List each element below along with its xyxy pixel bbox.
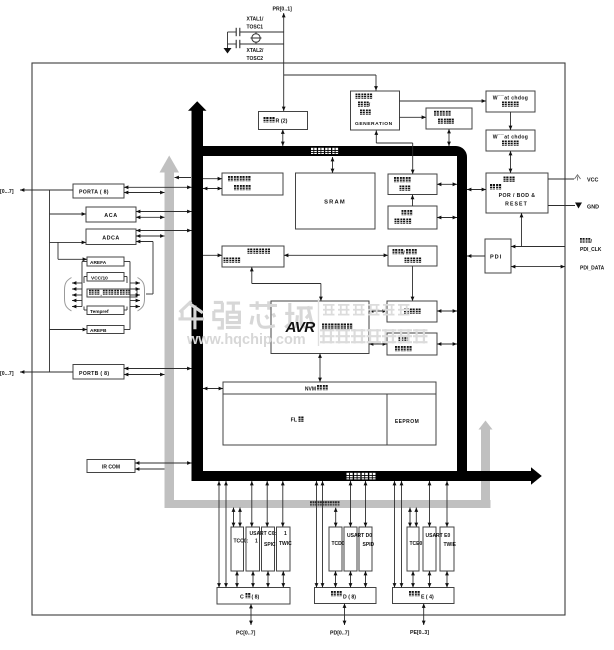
wire ACA to data bus (136, 211, 192, 213)
wire CPU to interrupt controller (369, 343, 387, 345)
wire feeder to AREFA (57, 242, 59, 259)
svg-text:PD[0..7]: PD[0..7] (330, 631, 350, 637)
power supervision POR/BOD & RESET U-PWR (486, 173, 548, 213)
watermark hqchip large (178, 301, 204, 329)
wire XTAL2 line (228, 43, 237, 45)
svg-text:GND: GND (587, 204, 599, 210)
ADC ADCA (86, 229, 136, 245)
wire port D to pads (344, 604, 346, 626)
data bus bottom bar (192, 471, 532, 481)
wire left feeder bus (49, 190, 51, 372)
watermark divider (318, 299, 320, 346)
svg-text:[0...7]: [0...7] (0, 189, 14, 195)
port C block (217, 588, 290, 605)
TWI E (440, 527, 454, 571)
SPI C (262, 527, 275, 571)
watchdog oscillator U-WDO (486, 91, 535, 112)
svg-text:TOSC1: TOSC1 (247, 25, 264, 31)
svg-text:FL: FL (291, 418, 298, 424)
watermark right line1 (323, 304, 335, 316)
svg-text:PORTA ( 8): PORTA ( 8) (79, 190, 109, 196)
gray event bus bottom bar (165, 500, 491, 508)
wire IRCOM to event bus (135, 468, 165, 470)
wire port E data lines (394, 481, 396, 588)
port R (2) (259, 112, 308, 130)
wire CPU to OCD (369, 310, 387, 312)
wires into right funnel (129, 283, 131, 307)
data bus bottom arrowhead (531, 467, 542, 484)
svg-text:PDI_CLK: PDI_CLK (580, 247, 602, 253)
wire oscillator control to bus (437, 183, 457, 185)
wire TCC event lines (233, 508, 235, 528)
svg-text:RESET: RESET (505, 202, 528, 208)
wire PORTA pad (20, 189, 73, 191)
wire PORTB pad (20, 371, 73, 373)
real time counter U-RTC (426, 108, 472, 129)
wire PR vertical to Port R (283, 13, 285, 111)
wire USARTE TWIE data lines (429, 481, 431, 527)
wire TCD event line (335, 508, 337, 528)
gray event bus right arrow up (479, 421, 493, 430)
wires into left funnel (81, 283, 83, 307)
OCD monitor (387, 301, 437, 322)
wire USARTC SPIC TWIC data lines (251, 481, 253, 527)
GND symbol (575, 203, 582, 209)
svg-text:AVR: AVR (285, 319, 316, 336)
wire port C data lines (218, 481, 220, 588)
wire PDI_DATA (511, 266, 565, 268)
wire PDI to bus (467, 255, 485, 257)
wire watchdog osc to watchdog timer (510, 112, 512, 130)
wire power bottom from PDI clk net (521, 213, 523, 247)
svg-text:TCE0: TCE0 (410, 541, 423, 547)
label RESET/PDI_CLK (580, 238, 585, 243)
svg-text:EEPROM: EEPROM (395, 419, 419, 425)
svg-text:GENERATION: GENERATION (355, 121, 393, 127)
wire event system to bus 1 (203, 178, 222, 180)
wire RTC to data bus (448, 129, 450, 146)
USART C0:1 (246, 527, 260, 571)
wire prog/debug to OCD (412, 266, 414, 301)
watermark right line2 (320, 329, 335, 344)
capacitor C1 (235, 28, 237, 36)
wire power to GND (548, 205, 575, 207)
NVM controller block (223, 382, 436, 394)
interrupt controller (387, 333, 437, 355)
reference AREFB (87, 326, 124, 334)
wire ADCA to data bus (136, 230, 192, 232)
svg-text:USART C0:: USART C0: (250, 531, 277, 537)
flash memory (223, 394, 387, 445)
wire event bus from data bus top (175, 177, 192, 179)
svg-text:AREFB: AREFB (90, 328, 107, 334)
timer TCD0 (329, 527, 342, 571)
wire NVM to data bus (203, 388, 223, 390)
wire IRCOM to data bus (135, 462, 192, 464)
svg-text:D ( 8): D ( 8) (343, 594, 356, 600)
wire port D data lines (316, 481, 318, 588)
wire C peripherals to port C (236, 571, 238, 588)
wire D peripherals to port D (335, 571, 337, 588)
wire bus matrix from data bus (203, 254, 222, 256)
svg-text:TWIE: TWIE (444, 542, 457, 548)
svg-text:Tempref: Tempref (90, 309, 109, 315)
svg-text:USART E0: USART E0 (426, 533, 451, 539)
port E block (393, 588, 455, 604)
svg-text:PR[0..1]: PR[0..1] (273, 7, 293, 13)
wire USARTD SPID data lines (350, 481, 352, 527)
wire ACA to event bus (136, 216, 165, 218)
svg-text:TCC0:: TCC0: (234, 539, 249, 545)
wire power to bus (467, 189, 486, 191)
reference AREFA (87, 257, 124, 266)
wire E peripherals to port E (412, 571, 414, 588)
reference mux left funnel (65, 278, 72, 312)
event bus label (310, 501, 315, 506)
wire sleep to oscillator control (412, 195, 414, 206)
svg-text:W¯¯at chdog: W¯¯at chdog (493, 134, 529, 141)
wire feeder to ACA (50, 213, 87, 215)
bus matrix controller (222, 246, 284, 267)
svg-text:1: 1 (255, 539, 258, 545)
oscillator circuits / clock generation U-OSC (351, 91, 400, 130)
wire generation to RTC (400, 116, 427, 118)
gray event bus arrow up (160, 156, 180, 173)
event system controller (222, 173, 283, 195)
SPI D (359, 527, 372, 571)
wire bus matrix to prog/debug (284, 254, 388, 256)
reference VCC/10 (87, 273, 124, 282)
wire OCD to bus (437, 310, 457, 312)
port B (8) (73, 365, 124, 380)
wire event system to bus 2 (203, 188, 222, 190)
svg-text:R (2): R (2) (276, 118, 288, 124)
svg-text:XTAL2/: XTAL2/ (247, 48, 264, 54)
wire PORTB to event bus (124, 374, 165, 376)
svg-text:PC[0..7]: PC[0..7] (236, 631, 256, 637)
wire clock branch to generation (284, 74, 376, 76)
data bus top bar (197, 146, 467, 481)
SRAM memory (296, 173, 376, 229)
wire watchdog timer to power (510, 151, 512, 173)
wire port E to pads (423, 604, 425, 626)
svg-text:VCC: VCC (587, 177, 598, 183)
wire bus matrix to CPU (251, 267, 253, 284)
crystal Y1 (252, 34, 260, 42)
IR communication module IRCOM (87, 460, 135, 473)
wire ADCA to reference mux (136, 241, 153, 243)
svg-text:NVM: NVM (305, 387, 316, 393)
svg-text:( 8): ( 8) (252, 594, 260, 600)
svg-text:SPIC: SPIC (264, 542, 276, 548)
watchdog timer U-WDT (486, 130, 535, 151)
timer TCC0:1 (231, 527, 244, 571)
svg-text:[0...7]: [0...7] (0, 371, 14, 377)
wire sleep controller to bus (437, 217, 457, 219)
svg-text:1: 1 (284, 531, 287, 537)
svg-text:C: C (240, 594, 244, 600)
oscillator control (388, 174, 437, 195)
svg-text:PORTB ( 8): PORTB ( 8) (79, 371, 109, 377)
wire TCE event lines (409, 508, 411, 528)
svg-text:USART D0: USART D0 (347, 533, 372, 539)
svg-text:IR COM: IR COM (102, 465, 120, 471)
data bus label bottom (347, 473, 353, 480)
capacitor C2 (235, 40, 237, 48)
gray event bus left bar (165, 172, 175, 508)
svg-text:PDI: PDI (490, 255, 502, 261)
data bus top arrow (188, 101, 207, 111)
svg-text:POR / BOD &: POR / BOD & (499, 193, 536, 199)
wire interrupt controller to bus (437, 343, 457, 345)
EEPROM memory (387, 394, 436, 445)
gray event bus right bar (481, 429, 490, 508)
svg-text:XTAL1/: XTAL1/ (247, 17, 264, 23)
outer chip boundary (32, 63, 565, 615)
wire CPU to NVM (319, 354, 321, 383)
svg-text:TCD0: TCD0 (332, 541, 345, 547)
USART D0 (344, 527, 357, 571)
data bus label top (311, 148, 317, 154)
prog/debug controller (388, 246, 437, 266)
wire PORTA to event bus (124, 192, 165, 194)
svg-text:TOSC2: TOSC2 (247, 56, 264, 62)
reference Tempref (87, 306, 124, 315)
svg-text:SPID: SPID (363, 542, 375, 548)
wire XTAL1 line (228, 31, 237, 33)
ground (224, 48, 232, 54)
comparator ACA (86, 207, 136, 222)
wire feeder to AREFB (50, 329, 88, 331)
svg-text:ADCA: ADCA (102, 236, 120, 242)
VCC symbol (575, 175, 581, 179)
wire ADCA to event bus (136, 235, 165, 237)
timer TCE0 (407, 527, 419, 571)
wire PORTA to data bus (124, 186, 192, 188)
svg-text:AREFA: AREFA (90, 260, 107, 266)
wire PORTB to data bus (124, 368, 192, 370)
wire port R to data bus (282, 130, 284, 147)
TWI C (277, 527, 291, 571)
wire SRAM to data bus (332, 157, 334, 173)
PDI interface U-PDI (485, 239, 511, 273)
port D block (315, 588, 377, 604)
reference mux right funnel (138, 278, 145, 312)
svg-text:W¯¯at chdog: W¯¯at chdog (493, 95, 529, 102)
svg-text:PDI_DATA: PDI_DATA (580, 265, 605, 271)
wire oscillator control to generation (412, 143, 414, 174)
USART E0 (423, 527, 436, 571)
svg-text:TWIC: TWIC (279, 541, 292, 547)
AVR CPU core U-CPU (271, 301, 369, 354)
svg-text:E ( 4): E ( 4) (421, 594, 434, 600)
wire cap common to ground (227, 32, 229, 48)
svg-text:VCC/10: VCC/10 (91, 275, 108, 281)
svg-text:ACA: ACA (104, 213, 117, 219)
port A (8) (73, 184, 124, 198)
wire feeder to ADCA (50, 241, 87, 243)
svg-text:PE[0..3]: PE[0..3] (410, 630, 429, 636)
wire RESET/PDI_CLK (511, 246, 565, 248)
sleep controller (388, 206, 437, 229)
wire power to VCC (548, 178, 574, 180)
data bus left vertical bar (192, 110, 204, 481)
wire generation to watchdog osc (400, 100, 487, 102)
bandgap reference box (87, 289, 137, 297)
svg-text:SRAM: SRAM (324, 199, 346, 205)
wire port C to pads (250, 604, 252, 625)
